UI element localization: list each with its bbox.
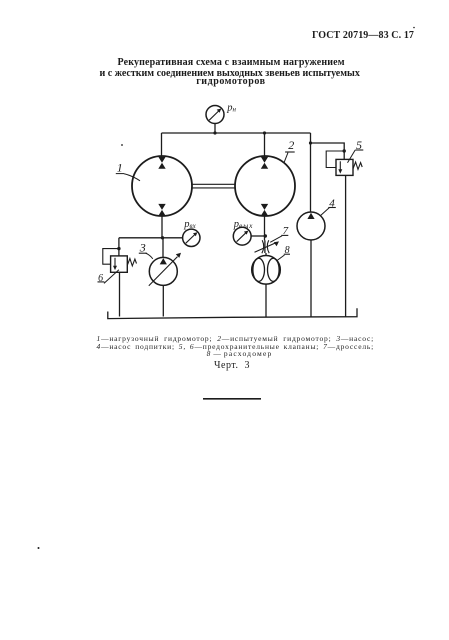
node: pilot junction of valve 6 [117,247,120,250]
speck bottom left [38,547,40,549]
label 4 [320,197,336,216]
wire: top manifold line [162,132,311,134]
pressure gauge p_н (stub wire) [214,124,216,133]
gauge p_вх [183,229,200,246]
wire: motor 2 bottom port drop [264,216,266,240]
svg-text:рвх: рвх [183,219,196,230]
wire: bottom return line with end ticks [108,308,357,318]
wire: left horizontal line to valve 6 and gauge [119,237,183,239]
label 3 [139,241,153,259]
node: junction on pump-4 drop [309,141,312,144]
svg-text:2: 2 [288,138,294,152]
wire: valve 5 drain to return line [345,175,347,316]
gauge p_вых [233,227,251,245]
label 6 [98,270,119,284]
speck above header 17 [413,27,415,29]
caption line 3 [15,350,449,358]
title line 2 [5,69,449,79]
speck near motor 1 [121,144,123,146]
caption line 2 [97,343,375,351]
svg-text:рн: рн [226,102,236,113]
valve 6 (предохранительный клапан) [111,256,137,272]
wire: branch to valve 5 [311,143,345,159]
svg-text:рвых: рвых [233,219,254,230]
wire: right drop from manifold to pump 4 [310,133,312,213]
wire: pump 3 to return line [162,285,164,316]
label 5 [348,138,364,163]
figure number [8,361,449,371]
wire: flow meter to return line [265,284,267,316]
label 1 [116,161,140,181]
wire: pilot loop of valve 6 [103,249,119,265]
caption line 1 [97,335,375,343]
title line 1 [7,58,449,68]
svg-text:1: 1 [117,161,123,175]
title line 3 [6,77,449,87]
valve 5 (предохранительный клапан) [336,159,362,175]
node: junction under motor 1 [161,236,164,239]
wire: drop from manifold to motor 2 top port [264,133,266,157]
svg-text:3: 3 [139,241,146,255]
pump 3 (насос) [149,253,181,286]
label 7 [270,225,288,242]
label 8 [277,245,290,261]
flow meter 8 (расходомер) [252,255,281,284]
pressure gauge p_н [206,106,224,124]
shaft: rigid coupling double line [192,184,235,188]
throttle 7 (дроссель) [255,240,280,256]
label 2 [284,138,295,163]
wire: feed to pump 3 [162,238,164,258]
wire: pilot loop of valve 5 [326,151,344,168]
node: pilot junction of valve 5 [343,149,346,152]
node: junction under motor 2 [264,234,267,237]
wire: motor 1 bottom port drop [161,216,163,238]
header: ГОСТ 20719—83 С. 17 [312,31,414,41]
motor 2 (испытуемый гидромотор) [235,156,295,216]
wire: feed to valve 6 [118,238,120,256]
node: junction motor 2 top [263,131,266,134]
gauge p_вых stub wire [251,235,265,237]
wire: pump 4 to return line [310,240,312,317]
pump 4 (насос подпитки) [297,212,325,240]
wire: valve 6 drain to return line [119,272,121,316]
wire: drop from manifold to motor 1 top port [161,133,163,157]
node: junction of gauge stub on manifold [213,131,216,134]
motor 1 (нагрузочный гидромотор) [132,156,192,216]
separator rule below caption [203,398,261,400]
